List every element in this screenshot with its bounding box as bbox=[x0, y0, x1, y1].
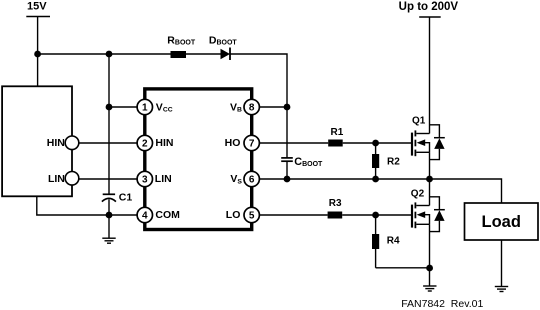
wire R_BOOT to D_BOOT bbox=[186, 53, 221, 55]
svg-text:2: 2 bbox=[142, 139, 148, 150]
capacitor C1 bbox=[102, 191, 132, 215]
resistor R2 bbox=[372, 143, 400, 179]
svg-text:4: 4 bbox=[142, 211, 148, 222]
pin 8 bbox=[244, 99, 259, 114]
node junction Vcc rail top bbox=[106, 51, 113, 58]
transistor Q2 bbox=[411, 179, 430, 286]
wire LO to R3 bbox=[259, 214, 328, 216]
svg-text:R2: R2 bbox=[387, 156, 400, 167]
svg-text:7: 7 bbox=[249, 139, 255, 150]
resistor R1 bbox=[328, 127, 344, 146]
pin 7 bbox=[244, 135, 259, 150]
svg-text:6: 6 bbox=[249, 175, 255, 186]
supply 15V terminal bbox=[26, 1, 50, 54]
svg-text:LIN: LIN bbox=[155, 173, 172, 185]
svg-text:Load: Load bbox=[481, 213, 520, 231]
supply Up to 200V terminal bbox=[399, 1, 459, 17]
wire top rail from 15V to R_BOOT bbox=[38, 53, 171, 55]
svg-text:HO: HO bbox=[225, 137, 241, 149]
svg-text:Up to 200V: Up to 200V bbox=[399, 1, 459, 13]
wire load to ground bbox=[501, 240, 503, 286]
wire HIN to pin 2 bbox=[72, 142, 145, 144]
svg-text:Q2: Q2 bbox=[411, 188, 425, 199]
svg-text:Q1: Q1 bbox=[412, 116, 426, 127]
svg-text:3: 3 bbox=[142, 175, 148, 186]
svg-text:1: 1 bbox=[142, 103, 148, 114]
ground below Q2 bbox=[423, 286, 436, 291]
diode D_BOOT bbox=[209, 35, 238, 60]
ground below C1 bbox=[102, 215, 115, 243]
pin 5 bbox=[244, 207, 259, 222]
node junction Q1 source / VS bbox=[426, 176, 433, 183]
svg-text:8: 8 bbox=[249, 103, 255, 114]
svg-text:HIN: HIN bbox=[47, 137, 65, 149]
wire LIN to pin 3 bbox=[72, 178, 145, 180]
svg-text:LIN: LIN bbox=[48, 173, 65, 185]
wire HO to R1 bbox=[259, 142, 328, 144]
svg-text:HIN: HIN bbox=[155, 137, 173, 149]
wire Vcc junction to pin 1 bbox=[109, 106, 145, 108]
capacitor C_BOOT bbox=[281, 107, 323, 179]
wire Vcc rail vertical bbox=[108, 54, 110, 194]
node junction R1/R2/gate bbox=[372, 140, 379, 147]
resistor R3 bbox=[328, 198, 343, 219]
wire box bottom to COM bbox=[37, 196, 145, 215]
node junction COM/ground bbox=[106, 212, 113, 219]
svg-text:15V: 15V bbox=[27, 1, 47, 13]
wire 200V to Q1 drain bbox=[429, 17, 431, 134]
wire D_BOOT to VB corner bbox=[230, 54, 287, 107]
load box bbox=[465, 203, 539, 240]
wire 15V to box top bbox=[37, 54, 39, 86]
svg-text:LO: LO bbox=[226, 209, 241, 221]
pin 3 bbox=[137, 171, 152, 186]
pin 1 bbox=[137, 99, 152, 114]
pin 2 bbox=[137, 135, 152, 150]
svg-text:COM: COM bbox=[155, 209, 180, 221]
body diode Q2 bbox=[430, 197, 445, 232]
svg-text:FAN7842 Rev.01: FAN7842 Rev.01 bbox=[401, 298, 483, 310]
svg-text:R3: R3 bbox=[329, 198, 342, 209]
terminal LIN bbox=[48, 172, 79, 186]
node junction VB bbox=[284, 104, 291, 111]
svg-text:R4: R4 bbox=[387, 235, 400, 246]
node junction R2 on VS rail bbox=[372, 176, 379, 183]
body diode Q1 bbox=[430, 125, 445, 160]
node junction R4 / Q2 source bbox=[426, 265, 433, 272]
svg-text:R1: R1 bbox=[331, 127, 344, 138]
transistor Q1 bbox=[412, 116, 430, 179]
wire R3 to Q2 gate bbox=[342, 214, 411, 216]
svg-text:5: 5 bbox=[249, 211, 255, 222]
ground below load bbox=[495, 287, 508, 292]
svg-text:C1: C1 bbox=[119, 191, 133, 203]
wire R4 bottom to Q2 source bbox=[376, 267, 430, 269]
input source box bbox=[2, 86, 72, 196]
resistor R4 bbox=[372, 215, 400, 268]
wire R1 to Q1 gate bbox=[343, 142, 411, 144]
resistor R_BOOT bbox=[167, 35, 196, 58]
pin 4 bbox=[137, 207, 152, 222]
wire VS rail to Load bbox=[259, 179, 502, 203]
node junction C_BOOT on VS rail bbox=[284, 176, 291, 183]
node junction Vcc pin bbox=[106, 104, 113, 111]
node junction 15V rail bbox=[34, 51, 41, 58]
wire pin 8 to C_BOOT top bbox=[259, 106, 287, 108]
terminal HIN bbox=[47, 136, 79, 150]
IC U1 FAN7842 body bbox=[145, 89, 252, 230]
pin 6 bbox=[244, 171, 259, 186]
node junction R3/R4/gate bbox=[372, 212, 379, 219]
